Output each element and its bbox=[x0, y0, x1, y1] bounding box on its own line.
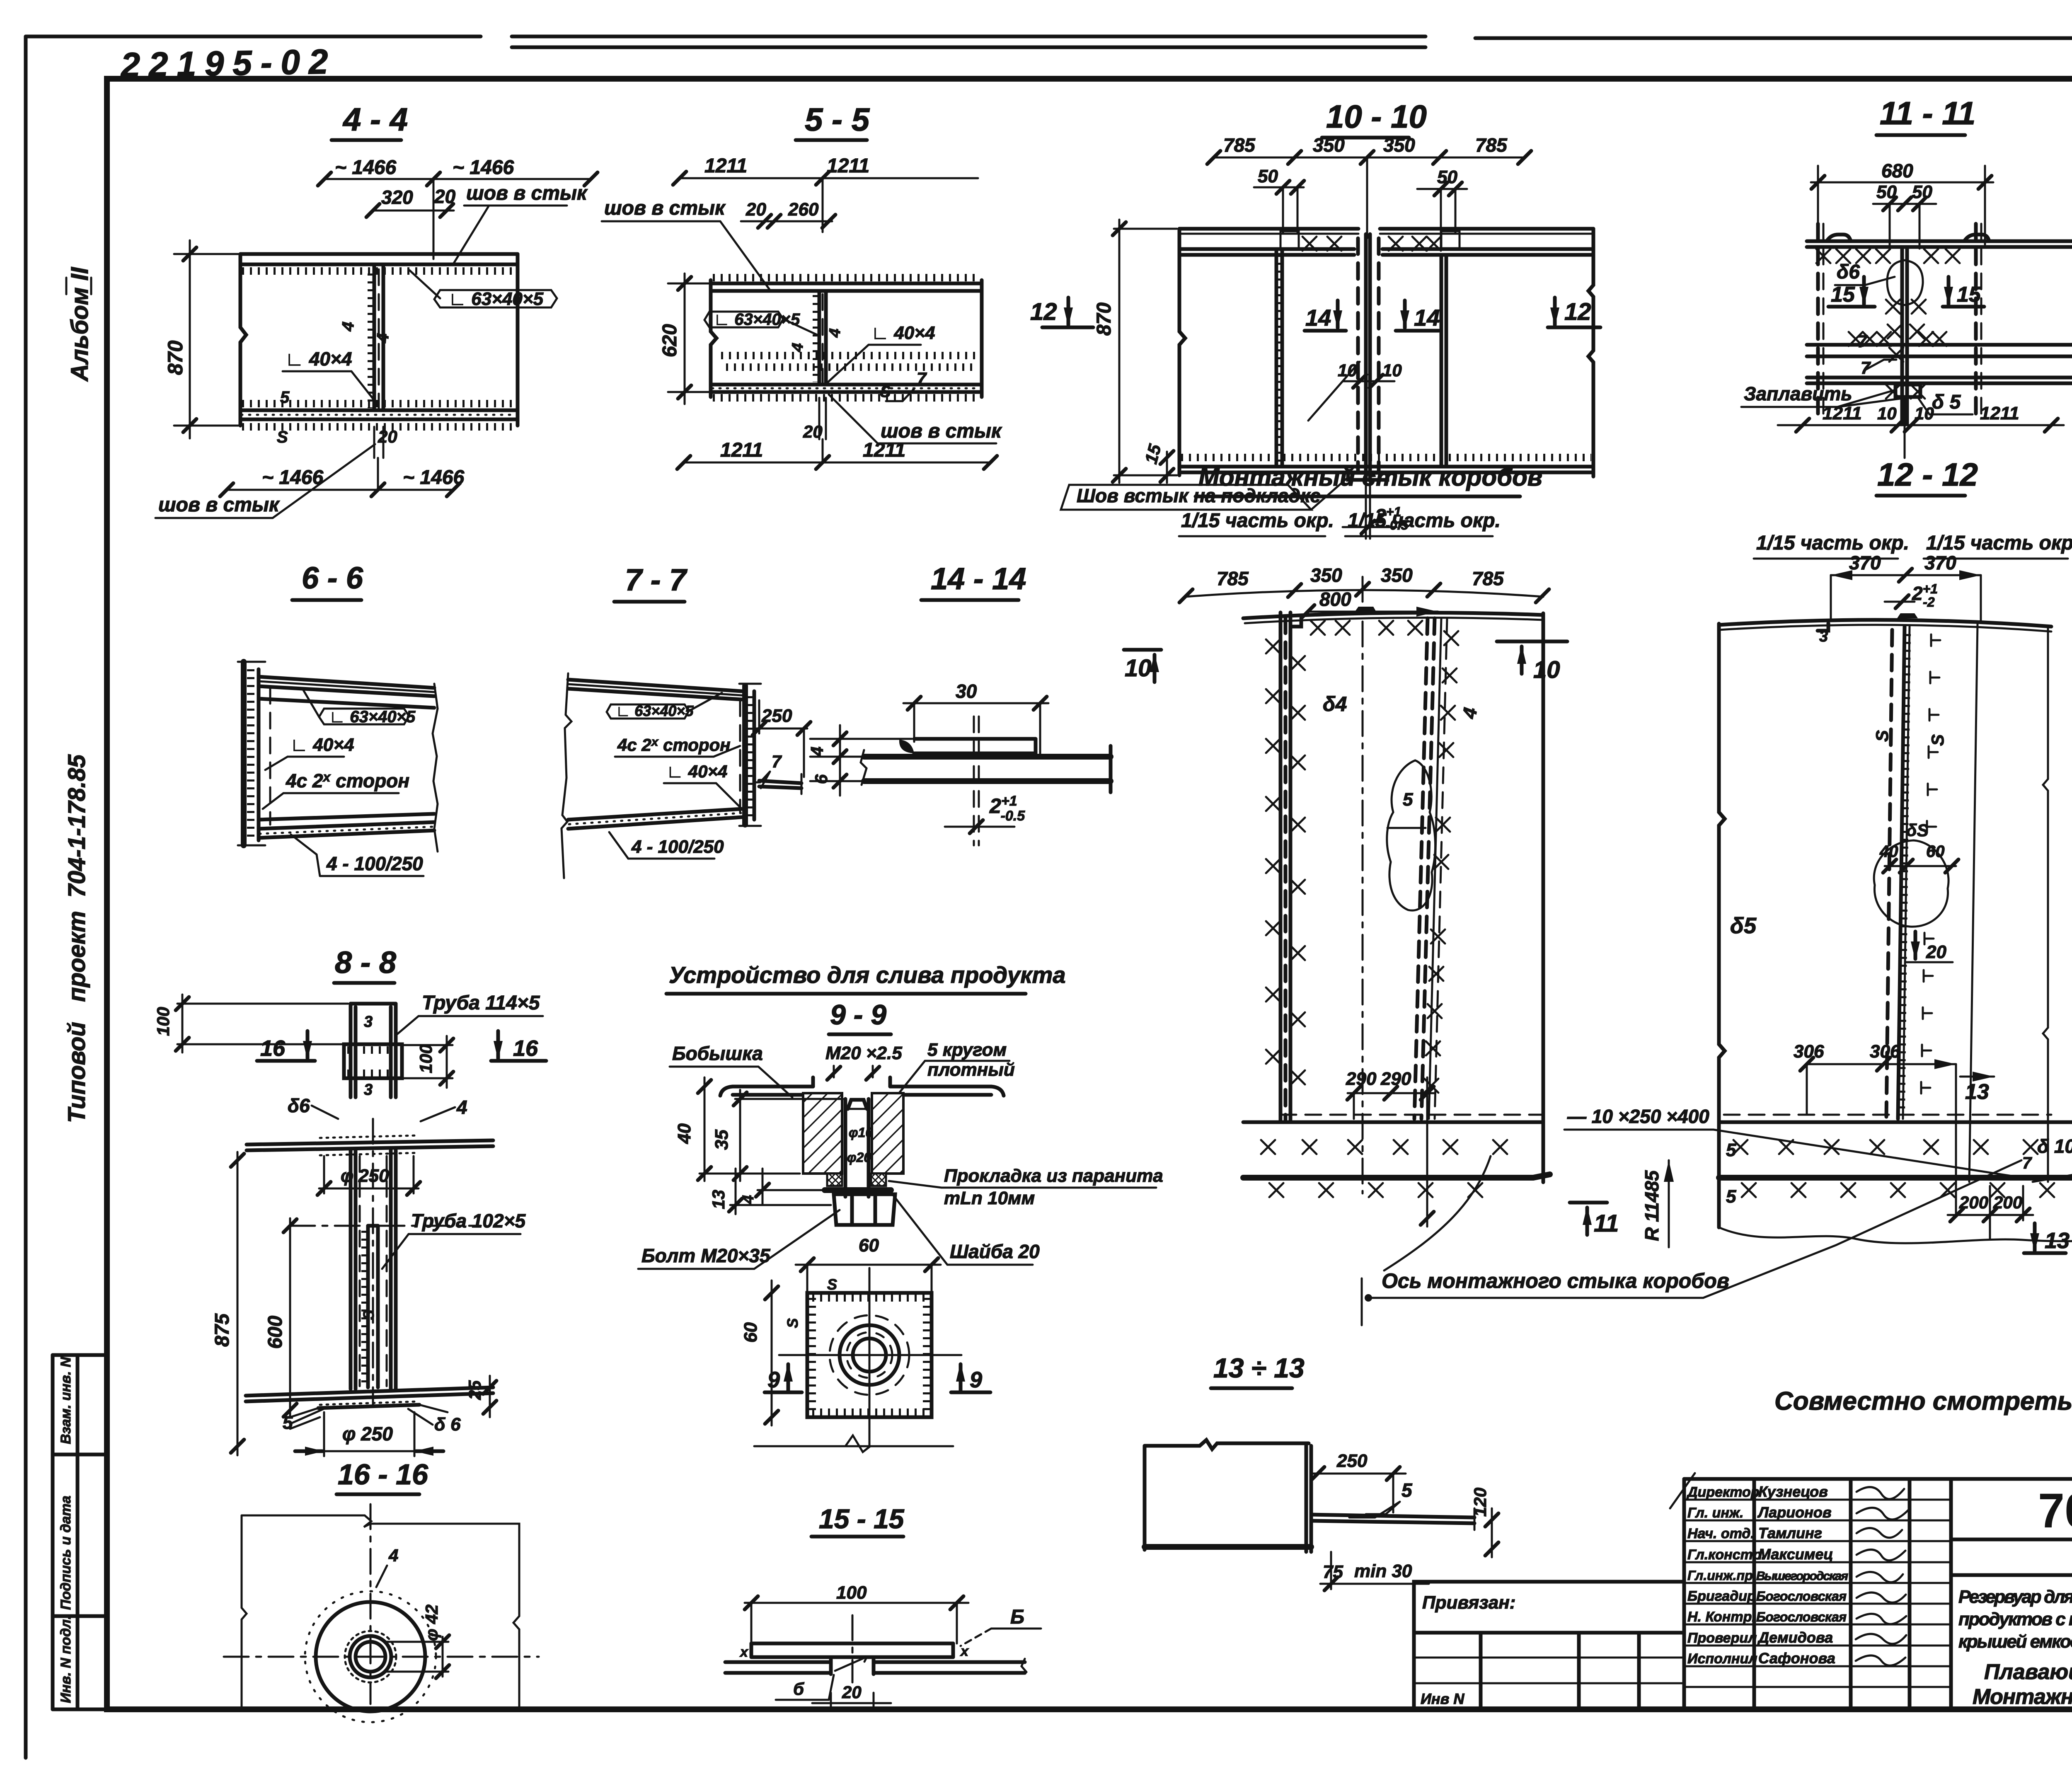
left margin label: Альбом II (vertical) bbox=[66, 266, 93, 382]
svg-text:Прокладка из паранита: Прокладка из паранита bbox=[944, 1166, 1163, 1186]
section 8-8 label Труба 102x5 bbox=[382, 1210, 526, 1269]
section 9-9 left flange bbox=[720, 1077, 813, 1096]
svg-text:Инв. N подл.: Инв. N подл. bbox=[58, 1615, 74, 1703]
svg-text:12: 12 bbox=[1564, 298, 1591, 325]
section 13-13 box bbox=[1145, 1440, 1311, 1552]
svg-text:20: 20 bbox=[378, 427, 397, 446]
svg-text:φ16: φ16 bbox=[849, 1125, 873, 1140]
section 8-8 inner rod bbox=[365, 1119, 378, 1406]
section 5-5 bottom 20 bbox=[803, 398, 826, 441]
svg-text:δ6: δ6 bbox=[1837, 261, 1860, 283]
svg-text:250: 250 bbox=[1336, 1451, 1368, 1471]
svg-text:φ 42: φ 42 bbox=[422, 1604, 441, 1641]
svg-text:785: 785 bbox=[1475, 134, 1508, 156]
section 9-9 plan labels S bbox=[784, 1276, 837, 1328]
section 7-7 label L40x4 bbox=[664, 762, 742, 809]
section 4-4 label L40x4 bbox=[283, 348, 374, 404]
svg-text:Тамлинг: Тамлинг bbox=[1758, 1525, 1822, 1542]
section 9-9 plan dim 60 left bbox=[741, 1280, 778, 1425]
svg-text:5: 5 bbox=[1403, 789, 1413, 810]
section 11-11 title bbox=[1876, 95, 1975, 135]
svg-text:S: S bbox=[360, 1310, 377, 1320]
section 11-11 label δ6 bbox=[1835, 261, 1895, 285]
section 10-10 dims 50 bbox=[1254, 166, 1467, 249]
svg-text:φ 250: φ 250 bbox=[341, 1166, 389, 1186]
section 12-12 title bbox=[1876, 456, 1978, 496]
svg-text:14: 14 bbox=[1414, 305, 1440, 331]
left panel top weld x row bbox=[1311, 621, 1422, 635]
svg-text:14 - 14: 14 - 14 bbox=[931, 561, 1026, 596]
svg-text:Монтажные узлы.: Монтажные узлы. bbox=[1973, 1685, 2072, 1709]
svg-text:∟ 40×4: ∟ 40×4 bbox=[871, 323, 935, 343]
section 15-15 lower plate bbox=[725, 1615, 1026, 1682]
section 4-4 stiffener bbox=[339, 264, 392, 410]
svg-text:7: 7 bbox=[1857, 332, 1868, 351]
section 6-6 label 4-100/250 bbox=[291, 835, 424, 876]
section 9-9 plan dim 60 top bbox=[796, 1235, 941, 1296]
svg-text:Заплавить: Заплавить bbox=[1744, 383, 1852, 404]
svg-text:∟ 63×40×5: ∟ 63×40×5 bbox=[714, 310, 800, 329]
section 5-5 vertical dim 620 bbox=[659, 273, 709, 404]
svg-text:11: 11 bbox=[1594, 1210, 1619, 1237]
title block: signature table bbox=[1670, 1473, 2072, 1709]
section 16-16 title bbox=[336, 1458, 428, 1494]
svg-text:9: 9 bbox=[767, 1367, 780, 1392]
svg-text:4: 4 bbox=[388, 1546, 398, 1565]
section 7-7 label 4-100/250 bbox=[609, 832, 724, 859]
left panel top plate bbox=[1243, 607, 1543, 627]
svg-text:~ 1466: ~ 1466 bbox=[453, 157, 514, 179]
svg-text:4 - 100/250: 4 - 100/250 bbox=[326, 853, 423, 874]
svg-text:∟ 63×40×5: ∟ 63×40×5 bbox=[448, 289, 544, 309]
outer sheet border top bbox=[26, 36, 2072, 38]
svg-text:306: 306 bbox=[1794, 1041, 1824, 1062]
svg-text:Резервуар для светлых нефте-: Резервуар для светлых нефте- bbox=[1958, 1587, 2072, 1607]
svg-text:Бригадир: Бригадир bbox=[1687, 1588, 1756, 1604]
right panel left edge bbox=[1719, 624, 1725, 1227]
section 11-11 cut markers 15 bbox=[1828, 277, 1875, 307]
svg-text:4 - 4: 4 - 4 bbox=[342, 101, 408, 138]
svg-text:870: 870 bbox=[164, 340, 187, 375]
svg-text:5: 5 bbox=[1726, 1186, 1736, 1207]
section 9-9 title bbox=[829, 999, 891, 1034]
section 4-4 bottom dim line 1466/1466 bbox=[220, 458, 464, 496]
section 5-5 label L63x40x5 bbox=[704, 310, 817, 335]
section 15-15 labels б / 20 bbox=[776, 1675, 891, 1706]
svg-text:Взам. инв. N: Взам. инв. N bbox=[58, 1356, 74, 1444]
section 8-8 dim 875 bbox=[211, 1152, 244, 1455]
left margin label: Типовой проект 704-1-178.85 (vertical) bbox=[63, 754, 90, 1123]
heading 1/15 часть окр. (left pair) bbox=[1179, 510, 1501, 536]
svg-text:4с 2х сторон: 4с 2х сторон bbox=[617, 735, 731, 755]
left panel left weld joint column bbox=[1266, 612, 1305, 1121]
svg-text:1211: 1211 bbox=[827, 155, 869, 177]
right panel dim 306/306 bbox=[1794, 1041, 1956, 1214]
section 10-10 top deck plate bbox=[1179, 229, 1593, 234]
right panel dim 200/200 bbox=[1948, 1186, 2033, 1239]
svg-text:15: 15 bbox=[1957, 283, 1981, 307]
section 9-9 boss block hatched bbox=[803, 1093, 903, 1174]
svg-text:х: х bbox=[960, 1643, 969, 1659]
section 10-10 box top plates bbox=[1179, 249, 1593, 255]
section 11-11 joint bottom box + δ5 bbox=[1895, 385, 1973, 414]
svg-text:5 - 5: 5 - 5 bbox=[805, 101, 870, 138]
section 6-6 right break bbox=[433, 684, 438, 852]
section 5-5 dim 20/260 bbox=[741, 199, 835, 228]
section 5-5 flag 7 / S bbox=[880, 369, 927, 401]
svg-text:Демидова: Демидова bbox=[1757, 1629, 1833, 1646]
section 5-5 box top plate bbox=[711, 278, 982, 291]
right panel right edge lines bbox=[1969, 624, 2048, 1182]
svg-text:6: 6 bbox=[811, 774, 831, 784]
svg-text:100: 100 bbox=[836, 1583, 867, 1603]
svg-text:Директор: Директор bbox=[1686, 1484, 1760, 1500]
svg-text:10: 10 bbox=[1382, 361, 1402, 380]
svg-text:10: 10 bbox=[1125, 655, 1152, 682]
section 16-16 square break box bbox=[242, 1515, 519, 1706]
section 14-14 gap dim 2+1-0.5 bbox=[945, 793, 1025, 833]
svg-text:∟ 40×4: ∟ 40×4 bbox=[290, 735, 354, 755]
svg-text:100: 100 bbox=[416, 1044, 436, 1073]
svg-text:306: 306 bbox=[1870, 1041, 1900, 1062]
svg-text:785: 785 bbox=[1217, 568, 1249, 589]
right panel bottom plates bbox=[1719, 1115, 2072, 1197]
right panel top plate bbox=[1719, 613, 2051, 632]
svg-text:370: 370 bbox=[1849, 552, 1881, 574]
section 11-11 middle member bbox=[1807, 332, 2072, 356]
section 4-4 weld size 5 / S bbox=[277, 388, 290, 446]
section 5-5 label L40x4 bbox=[828, 323, 935, 382]
section 9-9 plan square bbox=[807, 1293, 932, 1417]
svg-text:Максимец: Максимец bbox=[1758, 1546, 1833, 1563]
svg-text:12 - 12: 12 - 12 bbox=[1877, 456, 1978, 493]
svg-text:30: 30 bbox=[956, 680, 977, 702]
section 13-13 dim 120 bbox=[1470, 1488, 1498, 1557]
section 4-4 box top plate bbox=[240, 254, 518, 271]
section 9-9 bolt shaft bbox=[845, 1099, 873, 1197]
section 11-11 label Заплавить bbox=[1741, 383, 1906, 407]
heading Устройство для слива продукта bbox=[666, 962, 1066, 994]
heading Монтажный стык коробов bbox=[1196, 463, 1542, 496]
svg-text:Проверил: Проверил bbox=[1687, 1630, 1757, 1646]
svg-text:10: 10 bbox=[1877, 404, 1897, 423]
svg-text:Подпись и дата: Подпись и дата bbox=[58, 1496, 74, 1610]
section 15-15 dim 100 bbox=[745, 1583, 968, 1643]
section 9-9 label Шайба 20 bbox=[892, 1193, 1040, 1265]
section 10-10 clips bbox=[1276, 231, 1460, 467]
right panel gap dim 2+1-2 bbox=[1885, 581, 1938, 610]
section 6-6 bolt dashed line bbox=[269, 688, 271, 825]
svg-text:20: 20 bbox=[746, 199, 766, 220]
section 9-9 cut markers 9 bbox=[765, 1362, 802, 1392]
svg-text:20: 20 bbox=[434, 186, 456, 207]
section 10-10 label Шов встык на подкладке bbox=[1061, 477, 1348, 510]
svg-text:3: 3 bbox=[364, 1013, 373, 1031]
section 11-11 dim 680 bbox=[1811, 160, 1993, 244]
svg-text:Н. Контр.: Н. Контр. bbox=[1687, 1609, 1756, 1625]
section 11-11 deck plate bbox=[1807, 235, 2072, 247]
section 8-8 dim φ250 bottom bbox=[295, 1412, 443, 1456]
svg-text:S: S bbox=[1872, 730, 1892, 742]
svg-text:5: 5 bbox=[1402, 1479, 1413, 1501]
svg-text:16 - 16: 16 - 16 bbox=[338, 1458, 428, 1491]
section 4-4 bottom label шов в стык bbox=[155, 444, 375, 518]
section 13-13 dim 250 bbox=[1311, 1451, 1406, 1513]
svg-text:δ 10: δ 10 bbox=[2037, 1135, 2072, 1157]
right panel S labels bbox=[1872, 730, 1947, 746]
section 4-4 bottom 20 dim bbox=[374, 427, 397, 458]
svg-text:50: 50 bbox=[1258, 166, 1278, 186]
svg-text:1211: 1211 bbox=[704, 155, 747, 177]
section 9-9 label 5 кругом плотный bbox=[894, 1040, 1015, 1099]
section 7-7 protruding tab bbox=[759, 774, 801, 794]
right panel montage joint column bbox=[1886, 627, 1940, 1119]
svg-text:350: 350 bbox=[1383, 134, 1415, 156]
svg-text:∟ 40×4: ∟ 40×4 bbox=[285, 348, 352, 370]
section 4-4 top dim line 1466/1466 bbox=[318, 157, 598, 259]
svg-text:Богословская: Богословская bbox=[1756, 1609, 1847, 1624]
section 16-16 centerlines bbox=[224, 1504, 539, 1704]
section 5-5 weld tick rows bbox=[721, 356, 978, 367]
section 9-9 plan circles bbox=[779, 1268, 961, 1445]
svg-text:4: 4 bbox=[456, 1096, 467, 1118]
left panel centre axis line bbox=[1362, 577, 1364, 1193]
svg-text:14: 14 bbox=[1305, 305, 1331, 331]
section 11-11 lower member bbox=[1807, 378, 2072, 399]
section 13-13 title bbox=[1211, 1353, 1305, 1388]
right panel torn bottom edge bbox=[1719, 1227, 2072, 1245]
svg-text:Нач. отд.: Нач. отд. bbox=[1687, 1526, 1755, 1542]
section 8-8 dim 25 bbox=[465, 1376, 496, 1417]
svg-text:φ20: φ20 bbox=[847, 1150, 871, 1165]
svg-text:4: 4 bbox=[826, 328, 844, 339]
section 7-7 top plate bbox=[568, 680, 742, 699]
svg-text:S: S bbox=[784, 1318, 801, 1328]
section 16-16 labels 4 / φ42 bbox=[376, 1546, 449, 1678]
section 9-9 label Бобышка bbox=[670, 1043, 792, 1097]
left panel curved dim 785/350/350/785 bbox=[1179, 564, 1549, 603]
svg-text:шов в стык: шов в стык bbox=[158, 494, 280, 516]
left panel cut marker 10 (right) bbox=[1497, 641, 1567, 683]
svg-text:7: 7 bbox=[772, 752, 782, 771]
svg-text:12: 12 bbox=[1030, 298, 1057, 325]
svg-text:~ 1466: ~ 1466 bbox=[335, 157, 396, 179]
section 4-4 box left edge bbox=[240, 254, 246, 426]
svg-text:δS: δS bbox=[1906, 820, 1929, 840]
svg-text:Исполнил: Исполнил bbox=[1687, 1651, 1757, 1667]
right panel dim 370/370 bbox=[1831, 552, 1981, 622]
svg-text:20: 20 bbox=[842, 1682, 862, 1702]
section 10-10 bottom plates bbox=[1179, 457, 1593, 480]
svg-text:320: 320 bbox=[381, 186, 413, 208]
section 8-8 dashdot level line bbox=[290, 1225, 481, 1227]
right panel cut marker 13 (right) bbox=[1960, 1072, 1994, 1104]
section 8-8 bottom flange bbox=[246, 1387, 493, 1417]
section 8-8 dim φ250 top bbox=[317, 1156, 420, 1195]
section 10-10 joint dims 10/10 bbox=[1308, 361, 1402, 421]
svg-text:785: 785 bbox=[1472, 568, 1504, 589]
svg-text:S: S bbox=[827, 1276, 837, 1293]
outer sheet border left bbox=[24, 36, 28, 1758]
svg-text:5: 5 bbox=[280, 388, 290, 407]
svg-text:плотный: плотный bbox=[927, 1060, 1015, 1080]
section 15-15 label Б bbox=[739, 1606, 1041, 1660]
right panel labels 5 / 5 bbox=[1726, 1140, 1736, 1207]
svg-text:370: 370 bbox=[1924, 552, 1956, 574]
svg-text:Гл.констр.: Гл.констр. bbox=[1687, 1547, 1765, 1563]
backing plate label -10x250x400 bbox=[1564, 1106, 2017, 1177]
svg-text:Альбом II: Альбом II bbox=[66, 266, 93, 382]
svg-text:Труба 102×5: Труба 102×5 bbox=[411, 1210, 526, 1232]
svg-text:1/15 часть окр.: 1/15 часть окр. bbox=[1348, 510, 1501, 532]
section 6-6 left end plate bbox=[238, 662, 265, 845]
svg-text:9 - 9: 9 - 9 bbox=[830, 999, 886, 1031]
section 14-14 upper plate bbox=[899, 739, 1036, 753]
svg-text:Типовой проект 704-1-178.85: Типовой проект 704-1-178.85 bbox=[63, 754, 90, 1123]
section 6-6 title bbox=[292, 561, 363, 600]
svg-text:120: 120 bbox=[1470, 1488, 1490, 1517]
section 7-7 title bbox=[614, 563, 688, 602]
right panel label Заплавить bbox=[2033, 1141, 2072, 1182]
svg-text:φ 250: φ 250 bbox=[342, 1423, 393, 1445]
section 5-5 title bbox=[796, 101, 870, 140]
svg-text:Бобышка: Бобышка bbox=[672, 1043, 763, 1064]
section 10-10 right edge bbox=[1588, 229, 1593, 477]
section 10-10 right box stiffener bbox=[1441, 255, 1446, 467]
svg-text:800: 800 bbox=[1319, 588, 1351, 610]
section 5-5 bottom dim 1211/1211 bbox=[677, 439, 997, 469]
svg-text:S: S bbox=[277, 428, 288, 446]
svg-text:М20 ×2.5: М20 ×2.5 bbox=[825, 1043, 902, 1063]
svg-text:13: 13 bbox=[1965, 1080, 1989, 1104]
svg-text:350: 350 bbox=[1313, 134, 1345, 156]
svg-text:3: 3 bbox=[364, 1081, 373, 1099]
section 8-8 pipe top bbox=[351, 1004, 396, 1099]
section 12 cut marker right bbox=[1548, 298, 1600, 327]
left panel cut marker 11 bbox=[1570, 1203, 1619, 1237]
section 9-9 gasket strips bbox=[827, 1174, 886, 1186]
svg-text:350: 350 bbox=[1381, 564, 1413, 586]
svg-text:16: 16 bbox=[513, 1036, 538, 1061]
svg-text:~ 1466: ~ 1466 bbox=[262, 467, 323, 489]
svg-text:Ось монтажного стыка коробов: Ось монтажного стыка коробов bbox=[1382, 1269, 1729, 1292]
heading 1/15 часть окр. (right pair) bbox=[1754, 532, 2072, 559]
section 10-10 cut marker 10 (left) bbox=[1124, 650, 1161, 682]
svg-text:870: 870 bbox=[1093, 303, 1115, 336]
section 9-9 label Прокладка из паранита bbox=[889, 1166, 1163, 1208]
section 5-5 stiffener bbox=[789, 291, 844, 385]
section 7-7 bottom plate bbox=[568, 809, 742, 829]
section 10-10 title bbox=[1322, 98, 1427, 138]
section 9-9 washer and nut bbox=[825, 1190, 895, 1225]
svg-text:Плавающая Крыша.: Плавающая Крыша. bbox=[1984, 1660, 2072, 1684]
section 5-5 box bottom plate bbox=[711, 385, 982, 398]
section 5-5 label шов в стык top bbox=[602, 197, 770, 290]
section 4-4 title bbox=[332, 101, 408, 140]
section 8-8 dim 100 right bbox=[404, 1036, 453, 1088]
section 5-5 top dim 1211/1211 bbox=[673, 155, 978, 232]
right panel weld lens bbox=[1874, 820, 1958, 927]
svg-text:1/15 часть окр.: 1/15 часть окр. bbox=[1926, 532, 2072, 554]
svg-text:δ 6: δ 6 bbox=[434, 1414, 461, 1435]
svg-text:1211: 1211 bbox=[1823, 403, 1862, 424]
section 8-8 labels δ6 and 4 bbox=[288, 1095, 467, 1121]
section 8-8 outer pipe body bbox=[351, 1150, 396, 1389]
svg-text:7: 7 bbox=[2022, 1154, 2032, 1172]
svg-text:1211: 1211 bbox=[863, 439, 905, 461]
svg-text:10: 10 bbox=[1533, 656, 1560, 683]
svg-text:9: 9 bbox=[970, 1367, 982, 1392]
svg-text:785: 785 bbox=[1223, 134, 1256, 156]
svg-text:крышей емкостью 10 тыс. м³.: крышей емкостью 10 тыс. м³. bbox=[1958, 1631, 2072, 1652]
section 5-5 bottom label шов в стык bbox=[829, 394, 1002, 443]
svg-text:продуктов с плавающей: продуктов с плавающей bbox=[1958, 1609, 2072, 1629]
svg-text:1/15 часть окр.: 1/15 часть окр. bbox=[1756, 532, 1909, 554]
section 14-14 left dims 4 / 6 bbox=[807, 725, 912, 796]
section 8-8 dim 600 bbox=[264, 1218, 297, 1417]
svg-text:4: 4 bbox=[339, 321, 358, 332]
svg-text:Устройство для слива продукта: Устройство для слива продукта bbox=[669, 962, 1066, 988]
svg-text:шов в стык: шов в стык bbox=[466, 182, 588, 204]
section 6-6 callout L63x40x5 bbox=[303, 689, 416, 726]
section 7-7 flag 7 bbox=[756, 752, 782, 788]
title block: main right part bbox=[1951, 1483, 2072, 1710]
svg-text:Гл.инж.пр.: Гл.инж.пр. bbox=[1687, 1568, 1757, 1583]
svg-text:7 - 7: 7 - 7 bbox=[625, 563, 688, 597]
section 7-7 dim 250 bbox=[753, 700, 811, 777]
section 9-9 label M20x2.5 bbox=[825, 1043, 902, 1080]
section 5-5 box right edge bbox=[980, 280, 984, 397]
svg-text:15: 15 bbox=[1831, 283, 1855, 307]
section 7-7 left break line bbox=[562, 673, 571, 878]
section 10-10 gap dim 2+-0.5 bbox=[1343, 481, 1409, 539]
svg-text:Сафонова: Сафонова bbox=[1758, 1650, 1835, 1667]
svg-text:Труба 114×5: Труба 114×5 bbox=[422, 992, 540, 1014]
radius R11485 bbox=[1641, 1160, 1674, 1247]
svg-text:75: 75 bbox=[1323, 1562, 1343, 1582]
svg-text:4: 4 bbox=[373, 333, 392, 344]
svg-text:Монтажный стык коробов: Монтажный стык коробов bbox=[1198, 463, 1542, 491]
svg-text:680: 680 bbox=[1881, 160, 1913, 182]
svg-text:∟ 40×4: ∟ 40×4 bbox=[666, 762, 727, 781]
section 11-11 joint column with blob bbox=[1818, 224, 1981, 424]
svg-text:13 ÷ 13: 13 ÷ 13 bbox=[1213, 1353, 1305, 1383]
title block: binding box (Привязан) bbox=[1414, 1582, 1684, 1709]
svg-text:20: 20 bbox=[1926, 942, 1946, 962]
section 6-6 label 4с 2х сторон bbox=[263, 770, 409, 809]
axis label Ось монтажного стыка коробов bbox=[1362, 1160, 2021, 1325]
section 10-10 dim 870 bbox=[1093, 220, 1177, 483]
svg-text:Вышегородская: Вышегородская bbox=[1756, 1569, 1848, 1583]
svg-text:350: 350 bbox=[1310, 564, 1342, 586]
section 9-9 label Болт М20x35 bbox=[638, 1210, 840, 1269]
section 11-11 weld x row bbox=[1816, 249, 1960, 263]
svg-text:40: 40 bbox=[674, 1123, 695, 1144]
svg-text:δ4: δ4 bbox=[1323, 692, 1347, 716]
right panel marker 20 bbox=[1906, 932, 1953, 962]
svg-text:100: 100 bbox=[153, 1007, 173, 1036]
section 10-10 top dims 785/350/350/785 bbox=[1207, 134, 1531, 238]
svg-text:60: 60 bbox=[741, 1322, 761, 1343]
svg-text:∟ 63×40×5: ∟ 63×40×5 bbox=[329, 708, 416, 726]
svg-text:S: S bbox=[1928, 734, 1947, 746]
section 15-15 upper plate bbox=[751, 1643, 953, 1657]
svg-text:δ5: δ5 bbox=[1730, 913, 1757, 938]
section 5-5 box left edge bbox=[711, 280, 716, 397]
svg-text:Привязан:: Привязан: bbox=[1422, 1592, 1515, 1613]
svg-text:6 - 6: 6 - 6 bbox=[302, 561, 363, 595]
svg-text:х: х bbox=[739, 1644, 749, 1660]
